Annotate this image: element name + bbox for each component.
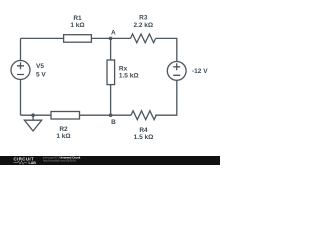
- node B junction dot: [109, 113, 113, 117]
- svg-text:http://circuitlab.com/c5b5h5d: http://circuitlab.com/c5b5h5d: [43, 159, 76, 163]
- schematic canvas: [0, 0, 220, 156]
- wire top-left horizontal (V5 top to R1): [21, 37, 64, 39]
- wire left vertical V5: [20, 38, 22, 115]
- wire ground stub: [32, 115, 34, 120]
- svg-text:LAB: LAB: [29, 161, 37, 165]
- resistor R3: [131, 34, 156, 43]
- wire R4 to bottom-right corner up to -12V bottom: [155, 80, 177, 115]
- voltage source V6 (-12 V): [167, 62, 186, 81]
- ground junction dot: [31, 113, 35, 117]
- node A junction dot: [109, 37, 113, 41]
- ground: [24, 120, 41, 131]
- resistor Rx: [107, 60, 115, 85]
- resistor R4: [131, 111, 156, 120]
- footer bar: [0, 156, 220, 165]
- wire Rx branch: [110, 38, 112, 115]
- wire R3 to top-right corner down to -12V top: [156, 38, 177, 61]
- CircuitLab logo: [0, 0, 220, 165]
- voltage source V5: [11, 61, 30, 80]
- wire R1 to node A to R3: [91, 37, 130, 39]
- resistor R2: [51, 112, 80, 120]
- wire R2 to node B to R4: [80, 114, 132, 116]
- resistor R1: [64, 35, 92, 43]
- wire bottom-left to R2: [21, 114, 52, 116]
